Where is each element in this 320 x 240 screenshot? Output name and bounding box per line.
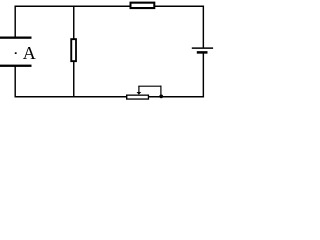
- capacitor top plate: [0, 37, 32, 39]
- rheostat wiper arrowhead: [137, 92, 142, 95]
- wire right upper: [202, 6, 204, 49]
- rheostat body: [126, 95, 149, 100]
- wire top: [15, 5, 204, 7]
- junction dot: [159, 95, 163, 99]
- wire left lower: [14, 66, 16, 97]
- resistor middle (vertical): [70, 38, 77, 62]
- wire wiper right vertical: [160, 86, 162, 97]
- svg-text:A: A: [23, 43, 36, 63]
- capacitor bottom plate: [0, 65, 32, 67]
- wire middle branch: [73, 6, 75, 97]
- wire left upper: [14, 6, 16, 38]
- battery long plate: [192, 47, 213, 49]
- wire right lower: [202, 52, 204, 97]
- wire bottom: [15, 96, 204, 98]
- node A dot: [15, 52, 17, 54]
- rheostat wiper arrow shaft: [138, 86, 140, 93]
- battery short plate: [197, 51, 208, 54]
- wire wiper horizontal: [138, 85, 161, 87]
- resistor top (horizontal): [130, 2, 156, 10]
